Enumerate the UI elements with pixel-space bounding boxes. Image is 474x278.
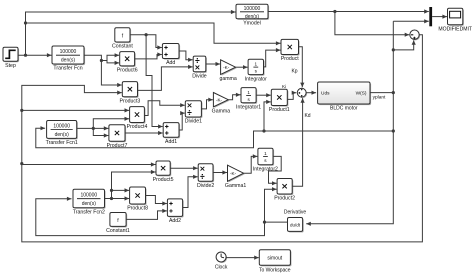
- product Product2: [274, 179, 295, 202]
- svg-text:BLDC motor: BLDC motor: [330, 106, 358, 112]
- wire Transfer Fcn output down to Product3 input 1: [84, 55, 121, 87]
- wire yplant top corner to Mux input 2: [393, 19, 429, 23]
- wire Gamma output to Integrator1: [228, 93, 240, 100]
- svg-text:Product5: Product5: [153, 177, 174, 183]
- wire Step branch up to u line: [24, 21, 281, 55]
- sum junction S2 (model/plant compare): [410, 30, 420, 40]
- plant block BLDC motor: [318, 82, 372, 112]
- divide Divide2: [197, 164, 214, 189]
- wire BLDC output yplant to feedback column: [370, 91, 395, 94]
- wire Transfer Fcn2 output to Product8 input 2: [105, 196, 130, 200]
- product Product: [281, 39, 300, 62]
- wire Divide1 output to Gamma: [201, 98, 213, 109]
- svg-text:den(s): den(s): [61, 57, 76, 63]
- svg-text:Constant: Constant: [112, 44, 133, 50]
- gain Gamma1: [225, 165, 246, 189]
- mux Mux: [429, 7, 432, 26]
- wire branch to Product6 fork: [101, 53, 119, 60]
- wire branch down to Product7 input 2: [93, 128, 108, 137]
- wire stub to Product8 input 1: [112, 188, 130, 192]
- product Product7: [107, 125, 128, 149]
- integrator Integrator2: [253, 148, 278, 172]
- svg-text:Product2: Product2: [274, 196, 295, 202]
- svg-text:Integrator1: Integrator1: [236, 105, 261, 111]
- wire Constant1 output to Add2 input 2: [126, 209, 167, 220]
- wire yplant branch to sum S2 bottom input: [393, 40, 416, 50]
- svg-text:simout: simout: [267, 256, 282, 262]
- svg-text:Kp: Kp: [291, 69, 297, 75]
- product Product3: [120, 82, 141, 105]
- derivative Derivative (du/dt): [284, 210, 306, 233]
- svg-text:Product8: Product8: [127, 206, 148, 212]
- svg-text:100000: 100000: [244, 6, 261, 12]
- svg-text:1: 1: [247, 90, 250, 95]
- wire yplant column with mux branch: [306, 21, 395, 226]
- wire Integrator1 to Product1 input 1: [256, 93, 271, 97]
- svg-text:Ymodel: Ymodel: [243, 21, 261, 27]
- product Product4: [127, 107, 148, 131]
- wire Divide2 output to Gamma1: [213, 170, 227, 174]
- svg-text:Kd: Kd: [304, 113, 310, 119]
- transfer function Ymodel: [236, 4, 269, 26]
- svg-text:Product3: Product3: [120, 99, 141, 105]
- svg-text:den(s): den(s): [245, 14, 260, 20]
- svg-text:Gamma: Gamma: [212, 109, 231, 115]
- wire error net: S2 output down, bottom run, left riser with branches: [20, 35, 422, 242]
- wire Constant to Add input 1: [130, 33, 162, 49]
- svg-text:1: 1: [264, 151, 267, 156]
- wire Ymodel to Mux input 1: [268, 9, 429, 13]
- svg-text:1: 1: [255, 62, 258, 67]
- wire Ymodel branch to sum S2 left input: [335, 12, 409, 37]
- svg-text:MODIFIEDMIT: MODIFIEDMIT: [438, 26, 472, 32]
- product Product1: [269, 89, 290, 113]
- wire Constant branch down to Add1 input 1: [146, 35, 163, 129]
- svg-text:Derivative: Derivative: [284, 210, 306, 216]
- svg-text:Transfer Fcn2: Transfer Fcn2: [73, 209, 105, 215]
- svg-text:Product4: Product4: [127, 124, 148, 130]
- svg-text:Constant1: Constant1: [106, 228, 130, 234]
- sum block Add1: [163, 123, 180, 145]
- svg-text:-K-: -K-: [230, 171, 237, 176]
- svg-text:Step: Step: [5, 63, 16, 69]
- svg-text:Product6: Product6: [117, 68, 138, 74]
- svg-text:Add1: Add1: [165, 139, 177, 145]
- divide Divide1: [185, 101, 203, 125]
- wire yplant feedback to Transfer Fcn1 input: [36, 126, 394, 148]
- wire Add1 output up to Divide1 input 2: [179, 111, 185, 130]
- svg-text:Add: Add: [166, 60, 175, 66]
- svg-text:Transfer Fcn1: Transfer Fcn1: [46, 140, 78, 146]
- svg-text:Product: Product: [281, 56, 299, 62]
- svg-text:Product1: Product1: [269, 107, 290, 113]
- wire branch up to Product1 input 2: [264, 100, 271, 131]
- source block Step: [3, 47, 19, 69]
- integrator Integrator1: [236, 88, 261, 111]
- svg-text:To Workspace: To Workspace: [259, 267, 291, 273]
- wire Add output to Divide input 1: [179, 51, 193, 62]
- wire gamma to Integrator: [236, 65, 248, 69]
- product Product5: [153, 161, 174, 183]
- wire Add2 output up to Divide2 input 2: [183, 175, 198, 208]
- svg-text:Divide1: Divide1: [185, 119, 202, 125]
- wire Product6 fork lower stub: [107, 61, 119, 66]
- svg-text:Transfer Fcn: Transfer Fcn: [53, 66, 82, 72]
- wire sum S1 to BLDC input: [306, 91, 316, 95]
- scope MODIFIEDMIT: [438, 8, 472, 32]
- divide Divide: [192, 56, 207, 79]
- svg-text:Gamma1: Gamma1: [225, 183, 246, 189]
- svg-text:100000: 100000: [80, 193, 97, 199]
- wire Product3 output up to Divide input 2: [138, 65, 193, 91]
- wire Product4 output up to Divide1 input 1: [144, 101, 184, 116]
- sum junction S1 (PID sum): [297, 88, 307, 98]
- wire Derivative output to Product2 input 2 and Transfer Fcn2 feedback: [36, 197, 288, 236]
- constant Constant (f): [112, 28, 133, 50]
- svg-text:-K-: -K-: [223, 65, 230, 70]
- wire branch up to Product5 input 2 with Product8 input 1 stub: [110, 170, 156, 199]
- svg-text:W(S): W(S): [356, 91, 367, 97]
- svg-text:Divide2: Divide2: [197, 183, 214, 189]
- wire branch up to Product4 input 2: [93, 117, 129, 129]
- svg-text:Divide: Divide: [192, 74, 207, 80]
- sum block Add: [162, 44, 180, 67]
- svg-text:Clock: Clock: [215, 265, 228, 271]
- wire Product1 output to sum S1 left input: [287, 91, 296, 100]
- gain gamma: [219, 60, 236, 82]
- wire Product6 output to Add input 2: [135, 52, 162, 59]
- constant Constant1 (f): [106, 213, 130, 235]
- svg-text:Ki: Ki: [282, 84, 286, 89]
- svg-text:100000: 100000: [53, 124, 70, 130]
- svg-text:den(s): den(s): [82, 201, 97, 207]
- wire branch up to Product2 input 2: [265, 187, 277, 222]
- wire Integrator output up to Product input 2: [264, 48, 281, 67]
- transfer function Transfer Fcn2: [73, 189, 106, 215]
- wire Clock to simout: [226, 256, 259, 260]
- product Product8: [127, 187, 148, 212]
- svg-text:Integrator: Integrator: [245, 76, 267, 82]
- wire Product5 output to Divide2 input 1: [170, 166, 198, 170]
- svg-text:Add2: Add2: [169, 218, 181, 224]
- svg-text:du/dt: du/dt: [290, 223, 301, 228]
- sum block Add2: [167, 199, 183, 224]
- svg-text:yplant: yplant: [373, 95, 386, 101]
- product Product6: [117, 52, 138, 74]
- wire Product output down to sum S1 top (Kp): [299, 47, 305, 87]
- transfer function Transfer Fcn1: [46, 121, 78, 147]
- wire Product7 output to Add1 input 2: [125, 131, 163, 135]
- clock Clock: [215, 252, 228, 271]
- svg-text:Uds: Uds: [321, 91, 330, 97]
- wire u line to Ymodel: [26, 10, 236, 23]
- wire Gamma1 output up to Integrator2: [244, 154, 258, 173]
- wire error branch to Product4 input 1: [22, 108, 129, 112]
- wire Product8 output to Add2 input 1: [146, 196, 167, 206]
- wire Step to Transfer Fcn: [18, 53, 52, 57]
- gain Gamma: [212, 93, 231, 115]
- to-workspace simout: [259, 250, 291, 273]
- wire Integrator2 output wrap to Product2 input 1: [269, 156, 282, 185]
- svg-text:100000: 100000: [60, 49, 77, 55]
- transfer function Transfer Fcn: [52, 46, 85, 72]
- wire error branch to Product5 input 1: [22, 162, 156, 166]
- wire Transfer Fcn1 output to Product7 input 1: [77, 126, 109, 130]
- svg-text:den(s): den(s): [55, 132, 70, 138]
- wire Product2 output up to sum S1 bottom (Kd): [292, 98, 305, 186]
- integrator Integrator: [245, 59, 267, 82]
- svg-text:-K-: -K-: [216, 97, 223, 102]
- svg-text:gamma: gamma: [219, 76, 236, 82]
- wire Mux to Scope: [432, 15, 447, 19]
- wire Divide output to gamma: [206, 62, 220, 66]
